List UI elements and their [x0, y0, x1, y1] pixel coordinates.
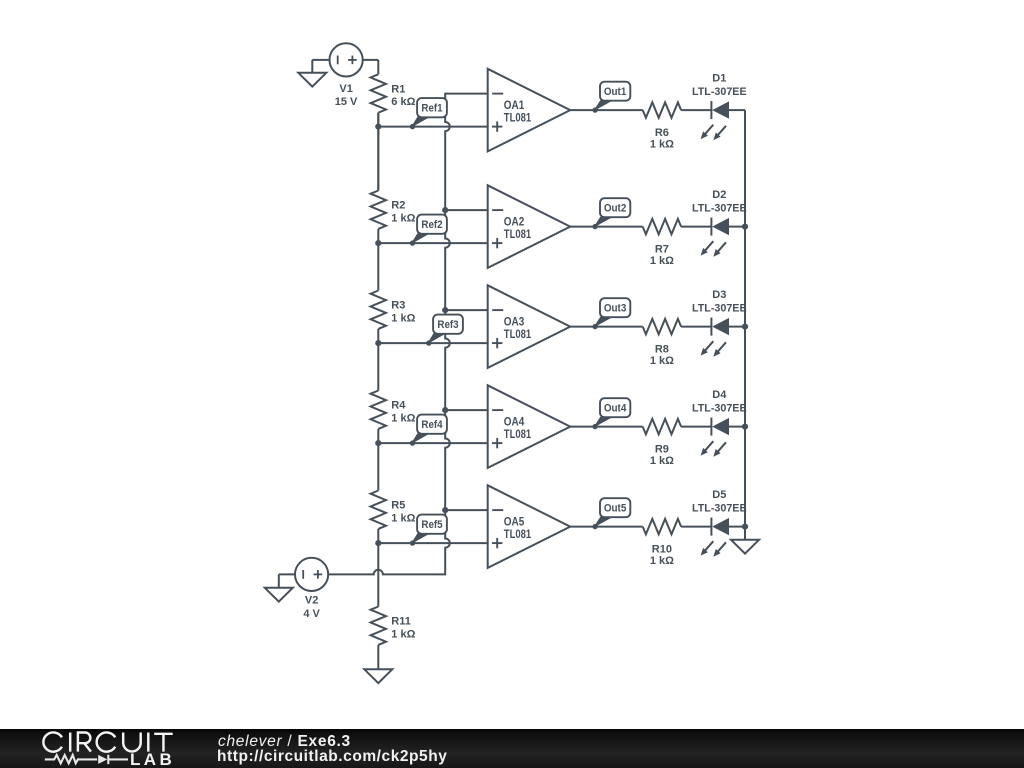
svg-text:1 kΩ: 1 kΩ — [391, 212, 415, 224]
svg-text:Ref4: Ref4 — [421, 419, 443, 431]
svg-text:Ref5: Ref5 — [421, 519, 442, 531]
svg-text:R2: R2 — [391, 200, 405, 212]
svg-text:Out4: Out4 — [604, 403, 627, 415]
svg-text:R1: R1 — [391, 83, 405, 95]
svg-text:1 kΩ: 1 kΩ — [391, 628, 415, 640]
svg-text:D5: D5 — [712, 489, 726, 501]
svg-text:1 kΩ: 1 kΩ — [650, 455, 674, 467]
svg-text:D3: D3 — [712, 289, 726, 301]
svg-text:D2: D2 — [712, 189, 726, 201]
svg-text:Ref3: Ref3 — [437, 319, 458, 331]
svg-text:1 kΩ: 1 kΩ — [391, 512, 415, 524]
svg-text:LTL-307EE: LTL-307EE — [692, 303, 747, 315]
svg-text:LTL-307EE: LTL-307EE — [692, 203, 747, 215]
svg-text:R8: R8 — [655, 344, 669, 356]
svg-text:R9: R9 — [655, 444, 669, 456]
svg-text:R5: R5 — [391, 500, 405, 512]
svg-text:Ref2: Ref2 — [421, 219, 442, 231]
svg-text:Out3: Out3 — [604, 303, 627, 315]
svg-text:1 kΩ: 1 kΩ — [650, 355, 674, 367]
svg-text:R11: R11 — [391, 616, 411, 628]
svg-text:LAB: LAB — [130, 750, 175, 768]
svg-text:D1: D1 — [712, 73, 726, 85]
svg-text:LTL-307EE: LTL-307EE — [692, 403, 747, 415]
svg-text:TL081: TL081 — [504, 111, 532, 125]
svg-text:TL081: TL081 — [504, 327, 532, 341]
svg-text:LTL-307EE: LTL-307EE — [692, 86, 747, 98]
svg-text:4 V: 4 V — [303, 608, 320, 620]
svg-text:R4: R4 — [391, 400, 406, 412]
svg-text:1 kΩ: 1 kΩ — [650, 255, 674, 267]
svg-text:R6: R6 — [655, 127, 669, 139]
svg-text:Out1: Out1 — [604, 86, 627, 98]
svg-text:TL081: TL081 — [504, 527, 532, 541]
svg-text:LTL-307EE: LTL-307EE — [692, 503, 747, 515]
svg-text:V1: V1 — [339, 83, 352, 95]
svg-text:1 kΩ: 1 kΩ — [650, 139, 674, 151]
svg-text:D4: D4 — [712, 389, 727, 401]
svg-text:R3: R3 — [391, 300, 405, 312]
svg-text:R7: R7 — [655, 244, 669, 256]
svg-text:1 kΩ: 1 kΩ — [391, 312, 415, 324]
svg-text:TL081: TL081 — [504, 227, 532, 241]
svg-text:V2: V2 — [305, 595, 318, 607]
svg-text:R10: R10 — [652, 544, 672, 556]
svg-text:1 kΩ: 1 kΩ — [650, 555, 674, 567]
svg-text:Ref1: Ref1 — [421, 103, 442, 115]
svg-text:1 kΩ: 1 kΩ — [391, 412, 415, 424]
svg-text:6 kΩ: 6 kΩ — [391, 96, 415, 108]
svg-text:15 V: 15 V — [335, 96, 358, 108]
svg-text:Out5: Out5 — [604, 503, 627, 515]
svg-text:TL081: TL081 — [504, 427, 532, 441]
svg-text:Out2: Out2 — [604, 203, 627, 215]
